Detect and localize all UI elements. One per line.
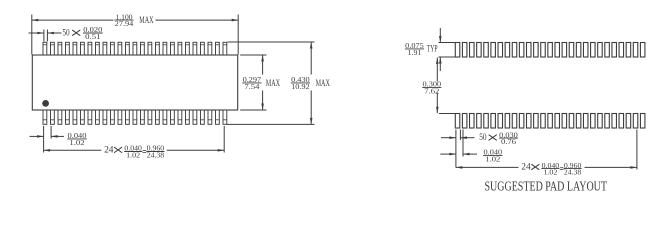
extension line, body bottom right — [240, 109, 266, 111]
extension line, body left edge up — [31, 15, 33, 55]
dimension 24 x 0.040/1.02 = 0.960/24.38 — [44, 149, 225, 152]
dimension 0.075/1.91 TYP arrows — [439, 28, 442, 71]
svg-text:24.38: 24.38 — [564, 169, 582, 177]
extension line, pad 1 left edge down — [455, 130, 457, 168]
pin 1 indicator dot — [42, 100, 49, 107]
extension line, pad bottom level left — [439, 56, 456, 58]
svg-text:MAX: MAX — [139, 15, 154, 25]
dimension 50 x 0.020/0.51 arrows — [29, 32, 62, 35]
svg-text:1.02: 1.02 — [543, 169, 558, 177]
dimension 50 x 0.030/0.76 arrows — [441, 136, 475, 139]
bottom pin row (25 leads) — [43, 110, 227, 124]
dimension text 24 x 0.040/1.02 = 0.960/24.38 — [104, 145, 165, 160]
package body outline — [32, 55, 237, 110]
extension tick, pad 1 right edge — [459, 130, 461, 141]
extension tick, bottom pin 2 left edge — [50, 126, 52, 139]
dimension 0.300/7.62 arrows — [436, 58, 439, 114]
svg-text:1.91: 1.91 — [408, 49, 423, 57]
dimension 0.040/1.02 (lead pitch) arrows — [30, 135, 65, 138]
svg-text:0.51: 0.51 — [85, 33, 101, 41]
svg-text:10.92: 10.92 — [291, 83, 310, 91]
dimension 1.100 arrows — [32, 19, 238, 22]
svg-text:24: 24 — [521, 163, 531, 173]
svg-text:7.62: 7.62 — [424, 87, 440, 95]
svg-text:24: 24 — [104, 146, 114, 156]
svg-text:MAX: MAX — [266, 78, 281, 88]
svg-text:1.02: 1.02 — [69, 139, 85, 147]
dimension text 50 x 0.020/0.51 — [62, 26, 103, 41]
dimension 24 x 0.040/1.02 = 0.960/24.38 (pads) — [456, 166, 637, 169]
top pin row (25 leads) — [43, 42, 227, 55]
extension line, bottom pin 25 left edge down — [223, 126, 225, 153]
extension tick, pad 2 left edge — [462, 130, 464, 157]
extension line, pad top level left — [439, 42, 456, 44]
dimension text 24 x 0.040/1.02 = 0.960/24.38 (pads) — [521, 162, 582, 177]
dimension text 1.100/27.94 MAX — [114, 13, 154, 28]
svg-text:1.02: 1.02 — [485, 155, 501, 163]
dimension 0.430/10.92 MAX (overall height) — [310, 42, 313, 124]
extension line, body top right — [240, 54, 266, 56]
extension line, bottom pin 1 left edge down — [43, 126, 45, 153]
svg-text:TYP: TYP — [427, 43, 438, 53]
dimension text 0.075/1.91 TYP — [405, 42, 438, 57]
svg-text:50: 50 — [62, 28, 70, 38]
extension line, bottom pad row top level left — [439, 113, 455, 115]
extension line, body right edge up — [237, 15, 239, 55]
suggested pad layout: bottom pad row — [455, 114, 645, 129]
svg-text:1.02: 1.02 — [126, 151, 141, 159]
extension line, pin top level right — [228, 41, 315, 43]
dimension 0.297/7.54 MAX (body height) — [261, 55, 264, 110]
suggested pad layout: top pad row — [455, 43, 645, 58]
svg-text:0.76: 0.76 — [501, 138, 517, 146]
svg-text:50: 50 — [479, 132, 487, 142]
extension line, pin bottom level right — [227, 123, 315, 125]
svg-text:24.38: 24.38 — [147, 151, 165, 159]
svg-text:7.54: 7.54 — [244, 83, 260, 91]
extension ticks at pin 1 edges — [43, 30, 45, 42]
dimension text 50 x 0.030/0.76 — [479, 131, 518, 146]
dimension text 0.297/7.54 MAX — [242, 76, 280, 91]
svg-text:MAX: MAX — [316, 78, 331, 88]
dimension 0.040/1.02 (pad pitch) arrows — [440, 153, 477, 156]
svg-text:SUGGESTED PAD LAYOUT: SUGGESTED PAD LAYOUT — [485, 179, 608, 194]
dimension text 0.430/10.92 MAX — [291, 76, 330, 91]
svg-text:27.94: 27.94 — [115, 20, 134, 28]
extension line, pad 25 left edge down — [636, 130, 638, 170]
